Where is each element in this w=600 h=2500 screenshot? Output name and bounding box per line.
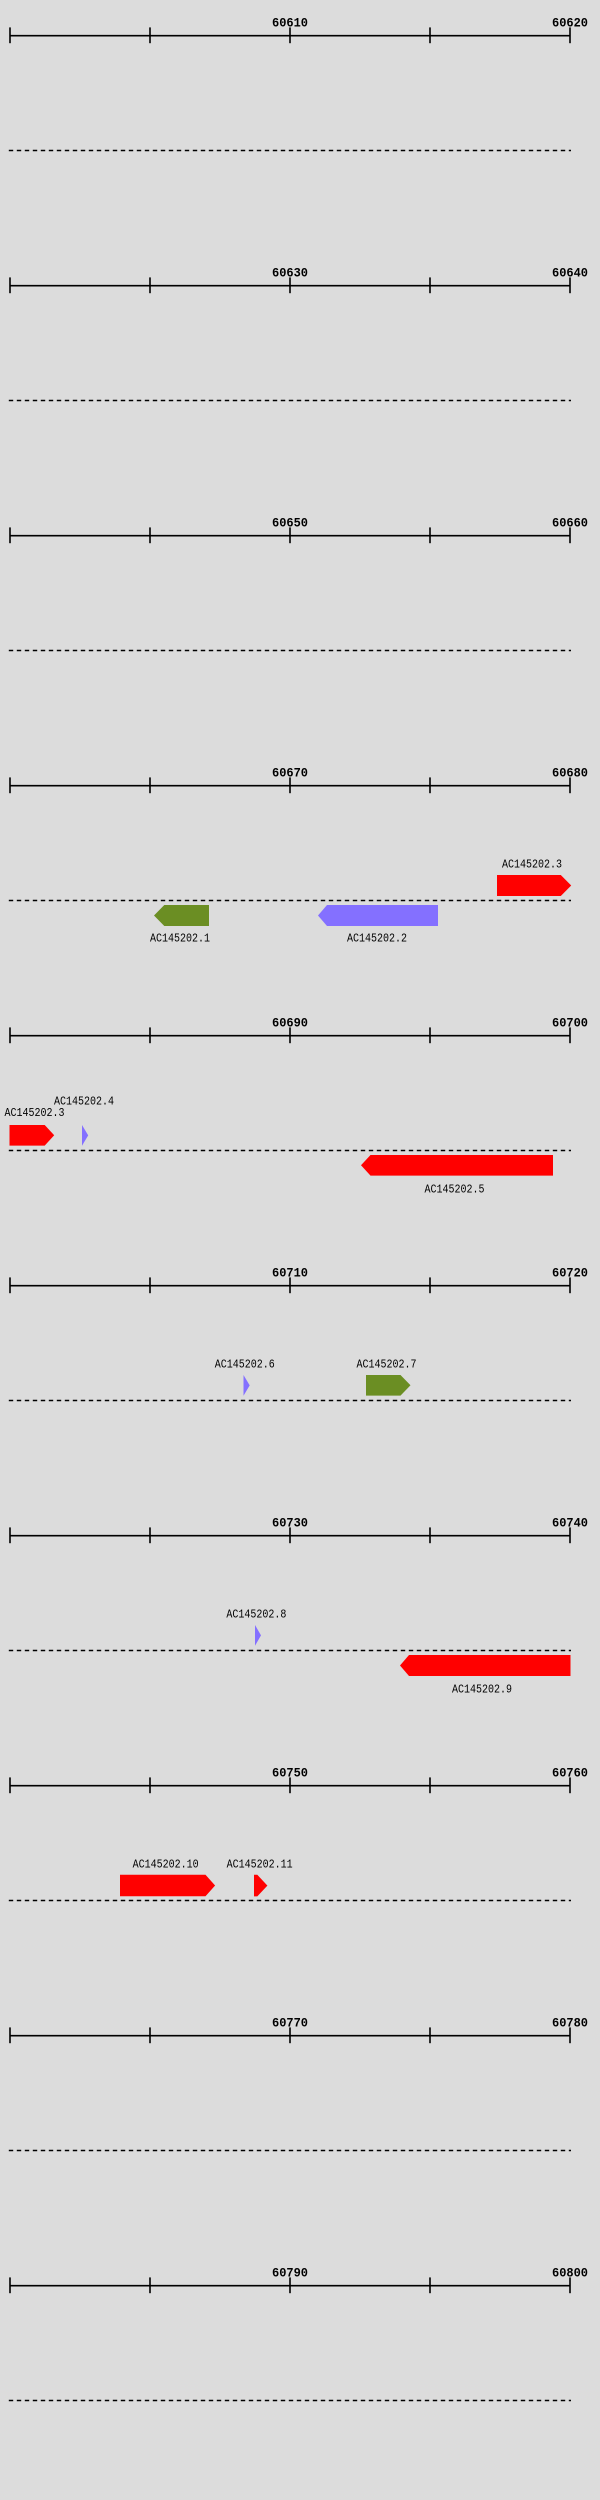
svg-text:AC145202.6: AC145202.6	[215, 1358, 275, 1372]
feature AC145202.9 arrow (reverse strand, red)	[400, 1655, 571, 1676]
svg-text:60750: 60750	[272, 1766, 308, 1781]
ruler tick x=10	[9, 1277, 11, 1293]
fragment ruler row y=500	[9, 516, 588, 651]
feature AC145202.3 continuation arrow (row 5)	[10, 1125, 55, 1146]
feature AC145202.10 arrow (forward strand, red)	[120, 1875, 215, 1897]
ruler tick x=290	[289, 27, 291, 43]
feature AC145202.11 small red arrow	[254, 1875, 267, 1897]
ruler tick x=290	[289, 2027, 291, 2043]
ruler tick x=430	[429, 27, 431, 43]
ruler tick x=10	[9, 777, 11, 793]
svg-text:AC145202.3: AC145202.3	[502, 857, 562, 871]
feature AC145202.2 arrow (reverse strand, purple)	[318, 905, 438, 926]
svg-text:60730: 60730	[272, 1516, 308, 1531]
svg-text:60710: 60710	[272, 1266, 308, 1281]
ruler tick x=150	[149, 27, 151, 43]
fragment ruler row y=2000	[9, 2016, 588, 2151]
ruler tick x=430	[429, 1777, 431, 1793]
ruler tick x=570	[569, 1777, 571, 1793]
fragment ruler row y=1000	[9, 1016, 588, 1151]
svg-text:60740: 60740	[552, 1516, 588, 1531]
svg-text:60620: 60620	[552, 16, 588, 31]
ruler tick x=10	[9, 1527, 11, 1543]
svg-text:AC145202.8: AC145202.8	[226, 1608, 286, 1622]
svg-text:60790: 60790	[272, 2266, 308, 2281]
feature AC145202.5 arrow (reverse strand, red)	[361, 1155, 553, 1176]
ruler tick x=570	[569, 1277, 571, 1293]
ruler tick x=570	[569, 1027, 571, 1043]
ruler tick x=290	[289, 777, 291, 793]
ruler tick x=10	[9, 1027, 11, 1043]
svg-text:60690: 60690	[272, 1016, 308, 1031]
svg-text:60650: 60650	[272, 516, 308, 531]
ruler tick x=290	[289, 1027, 291, 1043]
fragment ruler row y=0	[9, 16, 588, 151]
ruler baseline	[10, 1535, 570, 1537]
ruler tick x=430	[429, 2277, 431, 2293]
svg-text:AC145202.10: AC145202.10	[133, 1857, 199, 1871]
feature AC145202.1 arrow (reverse strand, green)	[154, 905, 209, 926]
ruler baseline	[10, 785, 570, 787]
ruler tick x=10	[9, 527, 11, 543]
ruler baseline	[10, 2285, 570, 2287]
ruler baseline	[10, 35, 570, 37]
svg-text:60720: 60720	[552, 1266, 588, 1281]
svg-text:AC145202.1: AC145202.1	[150, 932, 210, 946]
ruler tick x=570	[569, 2277, 571, 2293]
ruler tick x=150	[149, 527, 151, 543]
ruler tick x=150	[149, 2277, 151, 2293]
svg-text:AC145202.11: AC145202.11	[227, 1857, 293, 1871]
fragment ruler row y=250	[9, 266, 588, 401]
ruler tick x=290	[289, 1527, 291, 1543]
ruler tick x=570	[569, 27, 571, 43]
ruler baseline	[10, 1785, 570, 1787]
center dashed line	[9, 1900, 571, 1902]
ruler tick x=150	[149, 2027, 151, 2043]
ruler tick x=150	[149, 277, 151, 293]
ruler tick x=290	[289, 277, 291, 293]
ruler tick x=430	[429, 2027, 431, 2043]
fragment ruler row y=1250	[9, 1266, 588, 1401]
ruler tick x=10	[9, 1777, 11, 1793]
ruler tick x=150	[149, 1027, 151, 1043]
ruler tick x=430	[429, 1027, 431, 1043]
ruler baseline	[10, 285, 570, 287]
svg-text:AC145202.7: AC145202.7	[357, 1358, 417, 1372]
svg-text:AC145202.9: AC145202.9	[452, 1683, 512, 1697]
svg-text:60770: 60770	[272, 2016, 308, 2031]
feature AC145202.6 small purple arrow	[244, 1375, 250, 1396]
ruler tick x=10	[9, 277, 11, 293]
fragment ruler row y=1500	[9, 1516, 588, 1651]
ruler tick x=290	[289, 1777, 291, 1793]
center dashed line	[9, 2150, 571, 2152]
feature AC145202.3 arrow (forward strand, row 4)	[497, 875, 571, 896]
center dashed line	[9, 1650, 571, 1652]
ruler baseline	[10, 535, 570, 537]
svg-text:60630: 60630	[272, 266, 308, 281]
ruler tick x=570	[569, 527, 571, 543]
svg-text:60680: 60680	[552, 766, 588, 781]
ruler tick x=570	[569, 777, 571, 793]
svg-text:60780: 60780	[552, 2016, 588, 2031]
svg-text:60610: 60610	[272, 16, 308, 31]
ruler tick x=290	[289, 1277, 291, 1293]
svg-text:60800: 60800	[552, 2266, 588, 2281]
ruler tick x=430	[429, 527, 431, 543]
fragment ruler row y=2250	[9, 2266, 588, 2401]
ruler tick x=430	[429, 1277, 431, 1293]
center dashed line	[9, 900, 571, 902]
svg-text:60640: 60640	[552, 266, 588, 281]
fragment ruler row y=1750	[9, 1766, 588, 1901]
svg-text:60660: 60660	[552, 516, 588, 531]
ruler tick x=430	[429, 277, 431, 293]
ruler tick x=10	[9, 2027, 11, 2043]
ruler tick x=570	[569, 277, 571, 293]
ruler tick x=570	[569, 1527, 571, 1543]
ruler tick x=570	[569, 2027, 571, 2043]
ruler tick x=430	[429, 777, 431, 793]
ruler baseline	[10, 2035, 570, 2037]
ruler baseline	[10, 1035, 570, 1037]
center dashed line	[9, 1400, 571, 1402]
center dashed line	[9, 1150, 571, 1152]
feature AC145202.7 arrow (forward strand, green)	[366, 1375, 411, 1396]
ruler tick x=150	[149, 1527, 151, 1543]
svg-text:AC145202.4: AC145202.4	[54, 1095, 114, 1109]
feature AC145202.8 small purple arrow	[255, 1625, 261, 1646]
center dashed line	[9, 150, 571, 152]
svg-text:60760: 60760	[552, 1766, 588, 1781]
svg-text:AC145202.5: AC145202.5	[425, 1183, 485, 1197]
svg-text:60670: 60670	[272, 766, 308, 781]
ruler tick x=150	[149, 1777, 151, 1793]
ruler tick x=290	[289, 527, 291, 543]
ruler tick x=430	[429, 1527, 431, 1543]
ruler baseline	[10, 1285, 570, 1287]
svg-text:60700: 60700	[552, 1016, 588, 1031]
ruler tick x=150	[149, 1277, 151, 1293]
svg-text:AC145202.2: AC145202.2	[347, 932, 407, 946]
ruler tick x=10	[9, 27, 11, 43]
center dashed line	[9, 400, 571, 402]
ruler tick x=10	[9, 2277, 11, 2293]
ruler tick x=290	[289, 2277, 291, 2293]
fragment ruler row y=750	[9, 766, 588, 901]
feature AC145202.4 small purple arrow	[82, 1125, 88, 1146]
ruler tick x=150	[149, 777, 151, 793]
center dashed line	[9, 2400, 571, 2402]
center dashed line	[9, 650, 571, 652]
